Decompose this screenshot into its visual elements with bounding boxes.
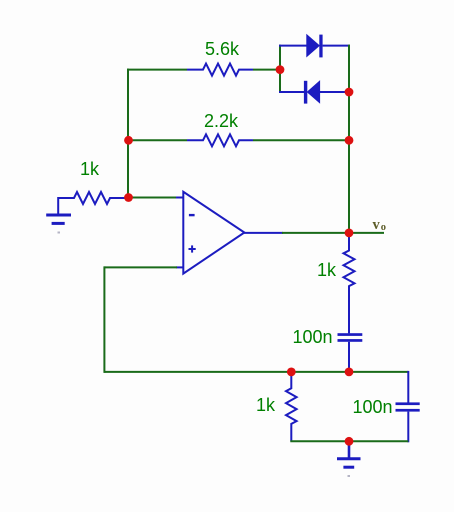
speck artifact below bottom ground [348,475,351,477]
svg-text:100n: 100n [353,397,393,417]
wire noninverting input [104,266,177,268]
resistor 1k (bottom, vertical) [286,372,297,441]
resistor 5.6k [187,64,253,76]
wire left vertical (top row to inverting input) [127,69,129,199]
svg-text:v: v [373,217,381,233]
svg-text:2.2k: 2.2k [204,111,239,131]
node junction at 1k bottom top [287,368,296,377]
node junction at 2.2k right [345,136,354,145]
diode D1 (top, anode left) [279,35,350,58]
wire feedback left vertical [103,266,105,373]
wire right vertical (diode branch down to output node) [348,45,350,233]
speck artifact below left ground [58,232,61,234]
node junction at 2.2k left [124,136,133,145]
pin stub inverting input [176,197,184,199]
capacitor 100n (bottom right) [396,371,420,442]
wire 2.2k row right segment [253,139,350,141]
node junction at inverting input [124,193,133,202]
resistor 1k input with lead to ground [58,192,126,214]
op-amp U1 [183,192,244,274]
resistor 2.2k [187,134,253,146]
ground bottom [337,441,361,467]
wire output row [282,232,384,234]
wire bottom row [290,440,408,442]
ground left [46,215,71,223]
svg-text:1k: 1k [80,159,100,179]
svg-text:100n: 100n [293,327,333,347]
resistor 1k (output, vertical) [344,233,355,334]
pin stub noninverting input [176,266,184,268]
svg-text:5.6k: 5.6k [205,39,240,59]
wire top row right segment (5.6k to node) [253,69,281,71]
label vo [373,217,387,233]
wire diode-branch left vertical [279,45,281,93]
wire top row left segment (to 5.6k) [127,69,187,71]
pin stub output [243,232,283,234]
wire 2.2k row left segment [127,139,187,141]
node junction at bottom ground [345,437,354,446]
svg-text:o: o [381,222,386,233]
wire inverting input [128,197,177,199]
svg-text:1k: 1k [317,260,337,280]
capacitor 100n (series) [338,333,363,373]
diode D2 (bottom, anode right) [279,81,350,104]
node junction at output vo [345,229,354,238]
node junction at series cap bottom [345,368,354,377]
svg-text:1k: 1k [256,395,276,415]
node junction at diode branch left [276,65,285,74]
wire feedback bottom horizontal [104,371,408,373]
node junction at diode D2 right [345,88,354,97]
